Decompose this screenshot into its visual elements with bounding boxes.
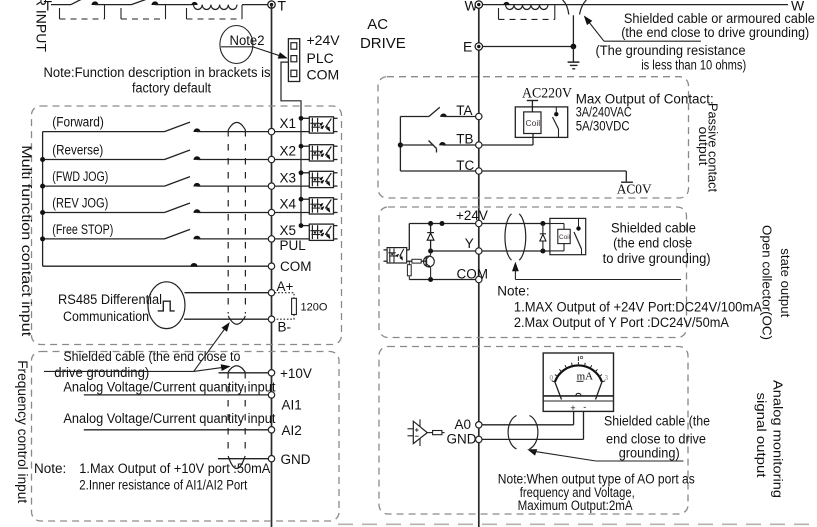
svg-text:X1: X1: [280, 116, 297, 131]
svg-text:Analog monitoring: Analog monitoring: [771, 380, 786, 498]
wire GND: [218, 458, 268, 460]
connector pin COM: [291, 70, 297, 76]
meter apex mark: [577, 356, 579, 361]
switch TA blade: [429, 107, 440, 116]
dashed box: open collector output: [379, 207, 687, 338]
svg-text:B-: B-: [278, 319, 292, 334]
junction shield/ground: [571, 44, 577, 50]
svg-text:Y: Y: [465, 236, 474, 251]
svg-text:+24V: +24V: [456, 208, 488, 223]
opto output stub to base resistor: [407, 260, 412, 262]
terminal TA: [476, 113, 482, 119]
junction bus: [40, 210, 45, 215]
wire contactor to reactor: [155, 4, 194, 6]
flyback diode (coil): [542, 224, 544, 252]
svg-text:Shielded cable: Shielded cable: [611, 221, 696, 236]
svg-text:+10V: +10V: [280, 366, 312, 381]
terminal A+: [268, 290, 274, 296]
junction bus/X3: [299, 170, 304, 175]
wire terminal X5 to optocoupler: [275, 238, 310, 240]
wire reactor to terminal T: [242, 4, 268, 6]
terminal GND (right): [476, 436, 482, 442]
svg-text:1.MAX Output of +24V Port:DC24: 1.MAX Output of +24V Port:DC24V/100mA: [514, 299, 762, 314]
terminal COM: [268, 263, 274, 269]
svg-text:Maximum Output:2mA: Maximum Output:2mA: [518, 498, 633, 513]
svg-text:-: -: [583, 402, 586, 412]
output reactor polarity dot: [503, 2, 509, 5]
wire E to ground: [483, 46, 574, 48]
wire terminal X1 to optocoupler: [275, 131, 310, 133]
terminal X3: [268, 183, 274, 189]
wire shield to ground junction: [572, 15, 574, 46]
terminal AI1: [268, 392, 274, 398]
contactor switch blade: [131, 0, 146, 5]
svg-text:X4: X4: [280, 197, 297, 212]
svg-text:TA: TA: [456, 103, 472, 118]
dashed box: analog monitoring signal output: [379, 347, 688, 515]
opto X2 output stubs: [334, 145, 338, 147]
breaker switch blade: [71, 0, 82, 5]
flyback diode (to Y): [430, 224, 432, 252]
relay coil box: [524, 112, 541, 134]
wire Y: [431, 250, 476, 252]
reactor polarity dot: [191, 2, 197, 5]
left drive terminal rail: [271, 5, 273, 527]
switch X3 contact dot: [193, 183, 200, 187]
opto X2 bus pin: [301, 145, 309, 147]
breaker enclosure (dashed): [59, 8, 61, 19]
wire TC: [400, 170, 475, 172]
svg-text:T: T: [278, 0, 287, 14]
svg-text:Shielded cable (the end close: Shielded cable (the end close to: [63, 349, 240, 364]
switch X1 blade: [165, 122, 191, 132]
terminal X1: [268, 128, 274, 134]
wire TB: [400, 144, 433, 146]
dashed box: passive contact output: [378, 77, 689, 198]
svg-text:Note:: Note:: [34, 461, 66, 476]
svg-text:COM: COM: [307, 67, 340, 83]
connector +24V/PLC/COM: [288, 39, 299, 82]
coil switch (OC): [578, 218, 580, 226]
dashed box: frequency control input: [32, 352, 340, 522]
svg-text:X5: X5: [280, 223, 297, 238]
svg-text:Coil: Coil: [526, 118, 541, 128]
junction bus/X4: [299, 197, 304, 202]
contactor enclosure (dashed): [120, 8, 122, 19]
svg-text:AC: AC: [367, 16, 388, 33]
arrow to lower shield: [194, 367, 225, 371]
reactor enclosure (dashed): [186, 8, 188, 19]
svg-text:+: +: [570, 403, 575, 413]
svg-text:(The grounding resistance: (The grounding resistance: [596, 43, 746, 58]
junction bus/X1: [299, 116, 304, 121]
wire COM row: [43, 265, 269, 267]
wire X1 from bus: [43, 131, 165, 133]
wire breaker to contactor: [95, 4, 131, 6]
switch X5 contact dot: [193, 236, 200, 240]
terminal AI2: [268, 427, 274, 433]
svg-text:Multi function contact input: Multi function contact input: [19, 145, 34, 336]
COM row contact dot: [190, 263, 197, 267]
svg-text:DRIVE: DRIVE: [360, 35, 406, 52]
optocoupler X5: [309, 224, 333, 240]
wire PLC to optocoupler bus: [281, 62, 301, 226]
terminal W: [475, 1, 482, 8]
optocoupler X1: [309, 117, 333, 133]
svg-text:GND: GND: [281, 452, 311, 467]
shielded cable clamp arcs: [563, 0, 569, 15]
junction diode/Y: [428, 249, 433, 254]
junction bus/X2: [299, 144, 304, 149]
switch X1 contact dot: [193, 128, 200, 132]
relay switch: [555, 107, 557, 112]
wire W to motor: [483, 4, 788, 6]
svg-text:AI1: AI1: [282, 398, 302, 413]
wire +10V: [219, 372, 269, 374]
svg-text:factory default: factory default: [132, 81, 211, 96]
panel meter: [543, 353, 613, 411]
switch X4 blade: [165, 203, 191, 213]
svg-text:T: T: [44, 0, 53, 14]
svg-text:1.Max Output of +10V port :50m: 1.Max Output of +10V port :50mA: [79, 461, 270, 476]
wire supply T: [51, 4, 71, 6]
svg-text:GND: GND: [447, 432, 477, 447]
junction diode/+24V: [428, 221, 433, 226]
dotted link A+ to resistor: [275, 293, 294, 299]
svg-text:Note:Function description in b: Note:Function description in brackets is: [44, 65, 271, 80]
svg-text:PUL: PUL: [280, 238, 307, 253]
svg-text:Communication: Communication: [63, 309, 149, 324]
svg-text:Open collector(OC): Open collector(OC): [760, 225, 775, 340]
svg-text:Note:: Note:: [497, 284, 529, 299]
wire terminal X3 to optocoupler: [275, 185, 310, 187]
wire X4 from bus: [43, 212, 165, 214]
svg-text:Frequency control input: Frequency control input: [15, 360, 30, 503]
opto output stub / riser to +24V: [407, 249, 410, 251]
junction bus: [40, 157, 45, 162]
svg-text:2.Inner resistance of AI1/AI2: 2.Inner resistance of AI1/AI2 Port: [79, 478, 247, 493]
switch X2 contact dot: [193, 156, 200, 160]
RS485 pulse ellipse: [148, 282, 185, 329]
wire TC to AC0V: [482, 170, 626, 172]
svg-text:AC220V: AC220V: [522, 86, 572, 102]
wire A+: [185, 292, 269, 294]
coil box (OC): [558, 229, 570, 243]
svg-text:0: 0: [550, 374, 554, 382]
svg-text:output: output: [696, 127, 711, 166]
svg-text:Shielded cable or armoured cab: Shielded cable or armoured cable: [624, 11, 815, 26]
junction TB: [398, 142, 403, 147]
junction bus: [40, 236, 45, 241]
pulldown resistor: [408, 261, 410, 265]
meter separators: [543, 395, 613, 397]
svg-text:mA: mA: [577, 371, 594, 383]
svg-text:COM: COM: [280, 259, 312, 274]
switch X3 blade: [165, 177, 191, 187]
connector pin +24V: [291, 43, 297, 50]
terminal Y: [476, 248, 482, 254]
svg-text:TB: TB: [456, 132, 473, 147]
coil links: [550, 223, 564, 225]
svg-text:AI2: AI2: [282, 423, 302, 438]
output reactor enclosure (dashed): [498, 8, 500, 19]
switch X5 blade: [165, 229, 191, 239]
wire terminal X4 to optocoupler: [275, 212, 310, 214]
note2 arrow to connector: [253, 47, 282, 57]
AC220V supply bar: [527, 100, 538, 102]
svg-text:signal output: signal output: [754, 393, 769, 478]
terminal TB: [476, 142, 482, 148]
opto X1 bus pin: [301, 117, 309, 119]
svg-text:X2: X2: [280, 144, 297, 159]
svg-text:(the end close to drive ground: (the end close to drive grounding): [621, 25, 809, 40]
terminal T (drive input): [268, 1, 275, 8]
svg-text:A+: A+: [277, 279, 294, 294]
terminal X4: [268, 209, 274, 215]
optocoupler X2: [309, 145, 333, 161]
opto X4 bus pin: [301, 198, 309, 200]
svg-text:Coil: Coil: [559, 234, 571, 241]
svg-text:3A/240VAC: 3A/240VAC: [576, 105, 632, 120]
wire AI1: [84, 394, 268, 396]
terminal +24V: [476, 220, 482, 226]
svg-text:(the end close: (the end close: [613, 236, 692, 251]
svg-text:5A/30VDC: 5A/30VDC: [576, 119, 630, 134]
wire X2 from bus: [43, 159, 165, 161]
junction emitter/COM: [428, 277, 433, 282]
opto X4 output stubs: [334, 198, 338, 200]
wire B-: [184, 318, 268, 320]
svg-text:RS485 Differential: RS485 Differential: [58, 292, 162, 307]
wire X3 from bus: [43, 185, 165, 187]
svg-text:A0: A0: [455, 417, 472, 432]
optocoupler (OC output): [387, 248, 407, 263]
svg-text:to drive grounding): to drive grounding): [603, 251, 711, 266]
contactor contact dot: [151, 1, 158, 5]
junction bus/X5: [299, 223, 304, 228]
svg-text:120O: 120O: [301, 302, 328, 314]
DAC amplifier symbol: [408, 428, 414, 430]
svg-text:Analog Voltage/Current quantit: Analog Voltage/Current quantity input: [63, 380, 275, 395]
note2 callout ellipse: [220, 26, 253, 64]
wire X2 to terminal: [197, 159, 268, 161]
terminal COM (right): [476, 276, 482, 282]
wire +24V: [409, 223, 475, 225]
wire TA: [400, 116, 429, 118]
wire GND to meter: [482, 438, 584, 440]
wire X3 to terminal: [197, 185, 268, 187]
switch X2 blade: [165, 150, 191, 160]
junction bus: [40, 184, 45, 189]
TA contact dot: [440, 114, 447, 117]
svg-text:grounding): grounding): [619, 446, 680, 461]
terminal TC: [476, 168, 482, 174]
TB contact dot: [439, 142, 446, 145]
dotted link resistor to B-: [275, 315, 294, 320]
terminal X2: [268, 156, 274, 162]
terminal GND (left): [268, 456, 274, 462]
leader line to shield arrows: [44, 370, 194, 372]
wire X4 to terminal: [197, 212, 268, 214]
svg-text:PLC: PLC: [307, 50, 334, 66]
svg-text:2.Max Output of Y Port :DC24V/: 2.Max Output of Y Port :DC24V/50mA: [514, 315, 729, 330]
opto X1 output stubs: [334, 117, 338, 119]
cropped next-section ghost dashes: [338, 523, 812, 525]
meter end needles: [555, 382, 562, 400]
svg-text:3: 3: [605, 374, 609, 382]
terminal +10V: [268, 370, 274, 376]
arrow to analog shield: [527, 449, 537, 455]
svg-text:(Reverse): (Reverse): [52, 143, 103, 158]
arrow to OC shield: [512, 262, 519, 272]
terminal B-: [268, 316, 274, 322]
svg-text:TC: TC: [456, 158, 474, 173]
terminal A0: [476, 422, 482, 428]
connector pin PLC: [291, 56, 297, 62]
terminating resistor 120 ohm: [292, 298, 297, 314]
transistor Q (NPN): [424, 256, 435, 267]
svg-text:Note2: Note2: [230, 33, 265, 48]
switch X4 contact dot: [193, 209, 200, 213]
leader arrow to cable shield: [604, 40, 701, 42]
inductor L (input reactor): [194, 5, 238, 10]
relay common bus: [399, 117, 401, 172]
svg-text:Analog Voltage/Current quantit: Analog Voltage/Current quantity input: [63, 411, 275, 426]
opto X3 output stubs: [334, 172, 338, 174]
shielded cable (left, dashed pair): [227, 130, 229, 314]
meter pivot: [576, 393, 581, 396]
svg-text:(Free STOP): (Free STOP): [52, 222, 113, 237]
svg-text:E: E: [463, 39, 472, 55]
opto X3 bus pin: [301, 172, 309, 174]
opto input stubs: [384, 249, 388, 251]
inductor (output reactor): [506, 5, 549, 10]
breaker contact dot: [91, 1, 98, 5]
svg-text:+24V: +24V: [307, 32, 341, 48]
svg-text:(FWD JOG): (FWD JOG): [52, 169, 108, 184]
svg-text:(Forward): (Forward): [52, 115, 104, 130]
relay outer box: [515, 107, 567, 137]
switch common bus: [42, 132, 44, 267]
base resistor: [412, 259, 421, 263]
shield ellipse (analog wires): [508, 416, 516, 449]
output resistor: [427, 432, 432, 434]
ground symbol: [572, 47, 574, 62]
wire TB to coil: [482, 144, 533, 146]
svg-text:is less than 10 ohms): is less than 10 ohms): [641, 58, 746, 73]
wire X1 to terminal: [197, 131, 268, 133]
optocoupler X4: [309, 198, 333, 214]
switch TB blade: [429, 141, 437, 149]
svg-text:drive grounding): drive grounding): [54, 365, 149, 380]
wire AI2: [84, 429, 268, 431]
svg-text:end close to drive: end close to drive: [606, 431, 706, 446]
terminal E: [475, 43, 482, 50]
dashed box: multi function contact input: [32, 106, 342, 345]
right drive terminal rail: [478, 5, 480, 527]
svg-text:AC0V: AC0V: [617, 183, 652, 198]
pulse symbol: [158, 301, 175, 311]
shielded cable (freq box, dashed pair): [227, 372, 229, 454]
opto X5 output stubs: [334, 225, 338, 227]
note2 underline: [221, 46, 253, 48]
wire X5 from bus: [43, 238, 165, 240]
arrow to upper shield: [194, 326, 227, 372]
terminal X5: [268, 236, 274, 242]
wire X5 to terminal: [197, 238, 268, 240]
svg-text:Shielded cable (the: Shielded cable (the: [604, 414, 710, 429]
optocoupler X3: [309, 171, 333, 187]
shield ellipse (OC wires): [505, 214, 512, 260]
wire A0 to meter: [482, 424, 574, 426]
svg-text:state output: state output: [778, 248, 793, 317]
svg-text:X3: X3: [280, 170, 297, 185]
relay coil (OC) outer box: [550, 218, 586, 254]
wire terminal X2 to optocoupler: [275, 159, 310, 161]
opto X5 bus pin: [301, 225, 309, 227]
wire COM (right): [409, 279, 475, 281]
svg-text:(REV JOG): (REV JOG): [52, 196, 108, 211]
